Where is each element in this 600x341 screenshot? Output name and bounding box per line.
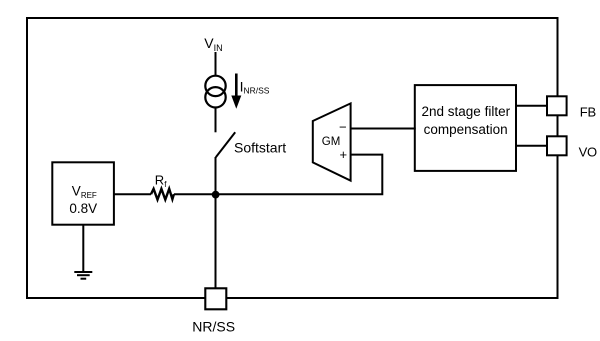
svg-text:INR/SS: INR/SS	[240, 78, 270, 95]
svg-text:Softstart: Softstart	[234, 139, 286, 155]
node NR/SS junction dot	[212, 191, 220, 199]
svg-text:GM: GM	[322, 136, 341, 148]
outer IC boundary box	[27, 18, 558, 298]
svg-text:0.8V: 0.8V	[69, 201, 97, 216]
svg-text:Rf: Rf	[155, 173, 167, 189]
wire VREF to resistor	[114, 193, 151, 195]
wire GM minus to filter block	[351, 128, 416, 130]
svg-text:FB: FB	[580, 104, 596, 119]
label 2nd stage filter compensation	[422, 104, 511, 137]
svg-text:2nd stage filter: 2nd stage filter	[422, 104, 511, 119]
pin NR/SS square	[205, 288, 226, 309]
wire filter block to FB pin	[516, 105, 547, 107]
svg-text:VO: VO	[579, 144, 597, 159]
current source I1 (NR/SS charging source)	[205, 76, 225, 108]
wire VIN to current source	[215, 52, 217, 76]
wire switch to NR/SS pin	[215, 157, 217, 289]
svg-text:compensation: compensation	[424, 122, 508, 137]
svg-text:VREF: VREF	[72, 184, 97, 200]
svg-text:NR/SS: NR/SS	[192, 318, 235, 334]
wire filter block to VO pin	[516, 145, 547, 147]
wire resistor to GM plus feedback leg	[174, 155, 382, 195]
resistor Rf	[151, 189, 174, 200]
block 2nd stage filter compensation	[415, 85, 516, 171]
current arrow INR/SS	[231, 74, 241, 109]
label VREF 0.8V	[69, 184, 97, 217]
switch S1 softstart blade	[216, 132, 235, 157]
pin VO square	[547, 136, 567, 155]
wire VREF to ground	[82, 225, 84, 272]
op-amp GM error amplifier	[313, 103, 351, 180]
ground symbol	[74, 272, 92, 279]
pin FB square	[547, 96, 567, 115]
svg-text:−: −	[339, 120, 347, 135]
reference block VREF 0.8V	[52, 162, 114, 224]
svg-text:VIN: VIN	[204, 35, 222, 53]
svg-text:+: +	[340, 147, 348, 162]
wire current source to switch	[215, 108, 217, 133]
